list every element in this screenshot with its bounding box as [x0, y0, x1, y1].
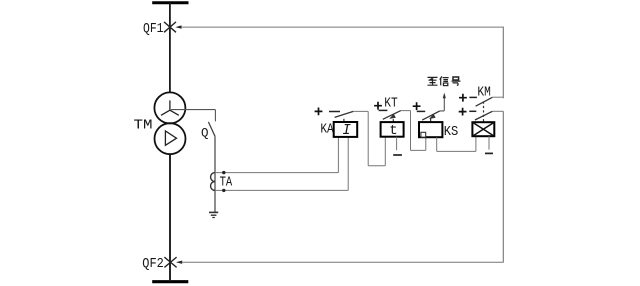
- svg-text:t: t: [389, 123, 397, 139]
- svg-text:KT: KT: [384, 97, 397, 112]
- svg-text:KS: KS: [444, 125, 459, 140]
- svg-text:QF1: QF1: [143, 22, 164, 37]
- svg-text:I: I: [342, 123, 351, 139]
- svg-text:KA: KA: [320, 123, 334, 138]
- svg-text:TA: TA: [220, 176, 233, 191]
- svg-text:Q: Q: [201, 126, 209, 140]
- svg-text:KM: KM: [477, 85, 490, 100]
- svg-text:TM: TM: [134, 118, 153, 133]
- svg-text:QF2: QF2: [142, 257, 164, 272]
